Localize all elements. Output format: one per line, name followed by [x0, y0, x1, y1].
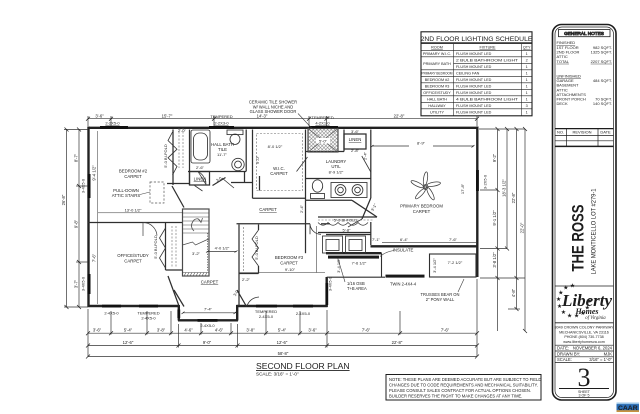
- svg-text:DECK: DECK: [557, 101, 568, 106]
- svg-text:1325 SQFT.: 1325 SQFT.: [591, 50, 612, 55]
- interior small dims: [105, 114, 463, 312]
- svg-text:8'-7": 8'-7": [74, 153, 79, 162]
- top dim line: [88, 118, 477, 120]
- svg-text:CARPET: CARPET: [124, 259, 142, 264]
- svg-text:1: 1: [526, 98, 528, 102]
- svg-text:2-4X5-0: 2-4X5-0: [296, 311, 311, 316]
- svg-text:ROOM: ROOM: [431, 45, 443, 49]
- svg-text:4-2X1-0: 4-2X1-0: [315, 121, 330, 126]
- svg-text:7'-6 1/2": 7'-6 1/2": [352, 261, 367, 266]
- svg-text:4 BULB BATHROOM LIGHT: 4 BULB BATHROOM LIGHT: [456, 98, 519, 102]
- stair dotted edge: [207, 233, 209, 272]
- svg-text:1: 1: [526, 78, 528, 82]
- windows: bottom walls: [102, 283, 328, 322]
- svg-text:CARPET: CARPET: [280, 261, 298, 266]
- svg-text:5'-0": 5'-0": [319, 139, 328, 144]
- insulate leader: [380, 251, 394, 257]
- left dim col: [66, 129, 68, 307]
- svg-text:3'-6": 3'-6": [93, 328, 102, 333]
- wic left wall: [252, 130, 254, 199]
- svg-text:15'-7": 15'-7": [162, 113, 173, 118]
- svg-text:CHANGES DUE TO CODE REQUIREMEN: CHANGES DUE TO CODE REQUIREMENTS AND MEC…: [389, 383, 538, 388]
- svg-text:PRIMARY W.I.C.: PRIMARY W.I.C.: [423, 52, 451, 56]
- svg-text:9'-2": 9'-2": [492, 153, 497, 162]
- svg-text:22'-0": 22'-0": [520, 222, 525, 233]
- project title THE ROSS (rotated): [570, 188, 598, 274]
- title block outer frame: [553, 25, 617, 401]
- svg-text:4'-6": 4'-6": [215, 328, 224, 333]
- svg-text:8'-9": 8'-9": [417, 141, 426, 146]
- svg-text:3-4X5-0: 3-4X5-0: [81, 178, 86, 193]
- svg-text:SCALE:: SCALE:: [557, 357, 572, 362]
- bottom dim rows: [88, 332, 477, 334]
- exterior walls: [88, 127, 479, 321]
- svg-text:BEDROOM #3: BEDROOM #3: [275, 255, 304, 260]
- svg-text:THE ROSS: THE ROSS: [570, 205, 588, 272]
- wall bottom left body: [88, 305, 180, 307]
- svg-text:3'-8": 3'-8": [246, 328, 255, 333]
- svg-text:SCALE: 3/16" = 1'-0": SCALE: 3/16" = 1'-0": [256, 372, 299, 377]
- wic right / utility col left wall: [305, 130, 307, 201]
- laundry right / linen2 wall: [343, 130, 345, 152]
- svg-text:ATTIC STAIRS: ATTIC STAIRS: [112, 193, 141, 198]
- svg-text:www.libertyhomesva.com: www.libertyhomesva.com: [563, 340, 605, 344]
- svg-text:FIXTURE: FIXTURE: [479, 45, 496, 49]
- secondary exterior lines (pony walls / strip): [327, 253, 476, 277]
- svg-text:2'-6": 2'-6": [196, 165, 205, 170]
- svg-text:9'-8": 9'-8": [74, 219, 79, 228]
- bedroom2 closet bottom: [167, 183, 190, 185]
- stair bottom hatch: [184, 273, 207, 277]
- ceiling fan: [410, 172, 441, 201]
- svg-text:9'-1 1/2": 9'-1 1/2": [492, 210, 497, 226]
- bifold zigzags: [160, 132, 369, 268]
- left interior dim line: [98, 131, 183, 304]
- svg-text:8'-9 1/2": 8'-9 1/2": [329, 170, 344, 175]
- bottom window labels: [104, 309, 311, 328]
- svg-text:OFFICE/STUDY: OFFICE/STUDY: [117, 253, 149, 258]
- svg-text:CARPET: CARPET: [270, 171, 288, 176]
- wic shelving dashed: [172, 128, 374, 272]
- svg-text:TWIN 2-4X4-4: TWIN 2-4X4-4: [390, 282, 417, 287]
- svg-text:3'-6": 3'-6": [308, 328, 317, 333]
- svg-text:3/16" = 1'-0": 3/16" = 1'-0": [589, 357, 612, 362]
- windows: left wall: [88, 174, 91, 294]
- svg-text:9'-4 1/2": 9'-4 1/2": [91, 165, 96, 181]
- svg-text:INSULATE: INSULATE: [393, 248, 414, 253]
- svg-text:5'-4": 5'-4": [124, 328, 133, 333]
- svg-text:REVISION: REVISION: [572, 130, 591, 135]
- svg-text:26'-8": 26'-8": [61, 194, 66, 205]
- svg-text:1: 1: [526, 52, 528, 56]
- svg-text:FLUSH MOUNT LED: FLUSH MOUNT LED: [456, 65, 492, 69]
- pull-down attic stairs (dashed): [140, 182, 164, 203]
- svg-text:2'-0": 2'-0": [178, 128, 187, 133]
- date / drawn by / scale rows: [555, 345, 614, 362]
- svg-text:DATE:: DATE:: [557, 346, 569, 351]
- svg-text:4'-8": 4'-8": [511, 288, 516, 297]
- hall bath right wall: [245, 130, 247, 172]
- svg-text:9'-10": 9'-10": [285, 267, 296, 272]
- primary bedroom left wall upper: [370, 130, 372, 199]
- svg-text:11'-7": 11'-7": [217, 152, 227, 157]
- right dim col: [497, 129, 499, 331]
- washer dryer: [323, 236, 366, 253]
- sheet number: [559, 363, 609, 398]
- svg-text:17'-8": 17'-8": [460, 183, 465, 194]
- hallway angled wall right: [237, 290, 247, 307]
- svg-text:3'-6": 3'-6": [351, 129, 360, 134]
- left dim labels (rotated): [61, 153, 96, 288]
- svg-text:1: 1: [526, 65, 528, 69]
- svg-text:TOTAL: TOTAL: [557, 59, 570, 64]
- svg-text:FLUSH MOUNT LED: FLUSH MOUNT LED: [456, 52, 492, 56]
- office closet left wall: [165, 223, 167, 271]
- hall lower dim 4'-0 1/2": [206, 251, 238, 253]
- svg-text:2 BULB BATHROOM LIGHT: 2 BULB BATHROOM LIGHT: [456, 59, 519, 63]
- svg-text:58'-8": 58'-8": [278, 351, 289, 356]
- svg-text:MECHANICSVILLE, VA 23116: MECHANICSVILLE, VA 23116: [559, 330, 609, 334]
- svg-text:13'-0 1/2": 13'-0 1/2": [125, 207, 142, 212]
- primary bath top wall: [306, 178, 371, 180]
- note box: [386, 375, 541, 401]
- bedroom3 closet left wall: [238, 225, 240, 307]
- primary bath double vanity: [331, 183, 367, 198]
- TWIN 2-4X4-4 beam bar: [386, 275, 425, 278]
- svg-text:★: ★: [567, 312, 573, 319]
- svg-text:NOVEMBER 6, 2024: NOVEMBER 6, 2024: [573, 346, 613, 351]
- svg-text:CARPET: CARPET: [259, 207, 277, 212]
- liberty homes logo: [555, 283, 614, 323]
- hall entry diagonal A: [172, 186, 184, 208]
- top dim labels: [95, 113, 405, 118]
- svg-text:12'-6": 12'-6": [123, 340, 134, 345]
- right dim labels (rotated): [492, 153, 525, 297]
- linen closet box: [190, 172, 210, 186]
- OSB beam bar: [328, 256, 379, 259]
- dim ticks top: [65, 117, 528, 359]
- svg-text:484 SQFT.: 484 SQFT.: [593, 78, 612, 83]
- notch left vertical: [381, 253, 383, 277]
- svg-text:T+B AREA: T+B AREA: [347, 286, 367, 291]
- bedroom2 closet wall: [172, 130, 174, 186]
- osb note: [347, 281, 417, 291]
- svg-text:22'-8": 22'-8": [394, 113, 405, 118]
- revision table: [555, 129, 614, 147]
- svg-text:3 OF 5: 3 OF 5: [579, 394, 590, 398]
- svg-text:5'-4": 5'-4": [278, 328, 287, 333]
- svg-text:140 SQFT.: 140 SQFT.: [593, 101, 612, 106]
- svg-text:★: ★: [570, 283, 576, 290]
- svg-text:3'-8 1/2": 3'-8 1/2": [492, 252, 497, 268]
- svg-text:★: ★: [563, 285, 569, 292]
- svg-text:12'-6": 12'-6": [277, 340, 288, 345]
- svg-text:3-0: 3-0: [215, 175, 223, 183]
- svg-text:BUILDER RESERVES THE RIGHT TO: BUILDER RESERVES THE RIGHT TO MAKE CHANG…: [389, 394, 522, 399]
- address block: [555, 326, 614, 344]
- svg-text:PRIMARY BATH: PRIMARY BATH: [423, 62, 451, 66]
- svg-text:NO.: NO.: [557, 130, 564, 135]
- hall bath toilet: [227, 130, 243, 145]
- svg-text:3'-6": 3'-6": [95, 113, 104, 118]
- svg-text:14'-3": 14'-3": [257, 113, 268, 118]
- svg-text:MJK: MJK: [604, 351, 613, 356]
- svg-text:UTILITY: UTILITY: [430, 111, 444, 115]
- svg-text:DRAWN BY:: DRAWN BY:: [557, 351, 580, 356]
- svg-text:BEDROOM #2: BEDROOM #2: [119, 169, 148, 174]
- svg-text:PRIMARY BEDROOM: PRIMARY BEDROOM: [400, 204, 443, 209]
- stairwell: [183, 209, 210, 276]
- svg-text:2'-2": 2'-2": [242, 277, 251, 282]
- svg-text:1: 1: [526, 91, 528, 95]
- svg-text:2-4X5-0: 2-4X5-0: [104, 311, 119, 316]
- bedroom2 / office divider: [88, 222, 183, 224]
- svg-text:CARPET: CARPET: [201, 280, 219, 285]
- svg-text:LINEN: LINEN: [194, 177, 207, 182]
- svg-text:3'-4 1/2": 3'-4 1/2": [432, 258, 437, 273]
- wall left: [87, 127, 89, 308]
- svg-text:2" PONY WALL: 2" PONY WALL: [426, 297, 455, 302]
- svg-text:18'-3 1/2": 18'-3 1/2": [502, 179, 507, 197]
- shower label patch: [316, 138, 330, 144]
- svg-text:BEDROOM #2: BEDROOM #2: [425, 78, 450, 82]
- svg-text:★: ★: [561, 309, 567, 316]
- svg-text:HALL BATH: HALL BATH: [427, 98, 447, 102]
- utility bottom wall: [326, 252, 382, 254]
- svg-text:3: 3: [526, 104, 528, 108]
- svg-text:★: ★: [585, 305, 591, 312]
- svg-text:QTY: QTY: [523, 45, 531, 49]
- svg-text:PHONE (804) 730-7738: PHONE (804) 730-7738: [564, 335, 603, 339]
- svg-text:HALLWAY: HALLWAY: [428, 104, 446, 108]
- svg-text:9'-0": 9'-0": [203, 340, 212, 345]
- bump-out left wall: [178, 305, 180, 321]
- svg-text:CAAR: CAAR: [618, 405, 638, 412]
- svg-text:OFFICE/STUDY: OFFICE/STUDY: [423, 91, 451, 95]
- utility col left lower: [305, 200, 307, 253]
- svg-text:LAKE MONTICELLO LOT #279-1: LAKE MONTICELLO LOT #279-1: [591, 188, 598, 274]
- svg-text:2'-4": 2'-4": [363, 151, 368, 160]
- bedroom3 closet bottom: [239, 273, 259, 275]
- linen2 box top right: [344, 134, 366, 149]
- svg-text:CARPET: CARPET: [413, 209, 431, 214]
- door swings: [195, 156, 371, 306]
- svg-text:9'-0": 9'-0": [255, 155, 260, 164]
- svg-text:5'-0 BI-FOLD: 5'-0 BI-FOLD: [163, 144, 168, 168]
- svg-text:3'-2": 3'-2": [192, 251, 201, 256]
- svg-text:5'-0 BI-FOLD: 5'-0 BI-FOLD: [254, 236, 259, 260]
- svg-text:5'-8": 5'-8": [343, 228, 352, 233]
- wall top: [88, 127, 479, 129]
- svg-text:1: 1: [526, 72, 528, 76]
- svg-text:5'-0 BI-FOLD: 5'-0 BI-FOLD: [153, 235, 158, 259]
- svg-text:8'-0 1/2": 8'-0 1/2": [268, 144, 283, 149]
- wic bottom wall: [253, 197, 306, 199]
- svg-text:3'-8": 3'-8": [157, 328, 166, 333]
- angled door wall B: [213, 178, 226, 186]
- bedroom3 closet right face top stub: [258, 225, 260, 231]
- svg-text:2: 2: [526, 59, 528, 63]
- svg-text:3-4X5-0: 3-4X5-0: [328, 276, 333, 291]
- svg-text:22'-8": 22'-8": [511, 192, 516, 203]
- svg-text:2'-8": 2'-8": [351, 148, 360, 153]
- svg-text:FLUSH MOUNT LED: FLUSH MOUNT LED: [456, 111, 492, 115]
- lighting schedule table: [421, 32, 533, 116]
- ceramic tile shower note: [249, 100, 297, 114]
- svg-text:7'-6": 7'-6": [441, 328, 450, 333]
- svg-text:8049 CROWN COLONY PARKWAY: 8049 CROWN COLONY PARKWAY: [555, 326, 614, 330]
- svg-text:PRIMARY BEDROOM: PRIMARY BEDROOM: [422, 72, 453, 76]
- svg-text:7'-4": 7'-4": [204, 307, 213, 312]
- svg-text:2-2X5-0: 2-2X5-0: [105, 121, 120, 126]
- svg-text:6'-4": 6'-4": [400, 237, 409, 242]
- general notes header box: [559, 30, 611, 37]
- primary bath toilet: [311, 180, 325, 199]
- svg-text:3'-7": 3'-7": [74, 279, 79, 288]
- windows: top wall: [100, 126, 338, 129]
- notch dims: [382, 242, 477, 244]
- svg-text:4'-0 1/2": 4'-0 1/2": [215, 246, 230, 251]
- title/logo divider: [555, 285, 614, 287]
- svg-text:7'-6": 7'-6": [449, 237, 458, 242]
- bottom dim labels: [93, 328, 450, 356]
- bedroom3 interior dims: [239, 226, 325, 273]
- svg-text:2-2X3-0: 2-2X3-0: [214, 121, 229, 126]
- primary bedroom bottom wall: [371, 245, 478, 247]
- svg-text:1: 1: [526, 85, 528, 89]
- svg-text:CEILING FAN: CEILING FAN: [456, 72, 480, 76]
- svg-text:★: ★: [586, 298, 592, 305]
- svg-text:FLUSH MOUNT LED: FLUSH MOUNT LED: [456, 91, 492, 95]
- svg-text:3-4X5-0: 3-4X5-0: [81, 276, 86, 291]
- svg-text:FLUSH MOUNT LED: FLUSH MOUNT LED: [456, 104, 492, 108]
- svg-text:1: 1: [526, 111, 528, 115]
- hall bath sink: [232, 158, 244, 170]
- svg-text:GENERAL NOTES: GENERAL NOTES: [564, 31, 604, 36]
- primary bedroom left wall lower: [370, 222, 372, 245]
- svg-text:★: ★: [574, 313, 580, 320]
- svg-text:7'-2 1/2": 7'-2 1/2": [448, 260, 463, 265]
- dimension lines: [64, 116, 525, 357]
- CAAR logo: [617, 403, 640, 413]
- svg-text:LINEN: LINEN: [349, 137, 362, 142]
- wall bottom bedroom3: [237, 305, 328, 307]
- svg-text:3: 3: [578, 363, 591, 392]
- bump-out bottom wall: [178, 319, 238, 321]
- svg-text:BEDROOM #3: BEDROOM #3: [425, 85, 450, 89]
- svg-text:FLUSH MOUNT LED: FLUSH MOUNT LED: [456, 78, 492, 82]
- svg-text:2-4X5-0: 2-4X5-0: [259, 314, 274, 319]
- svg-text:3'-1": 3'-1": [370, 202, 378, 212]
- office door swing: [143, 222, 157, 236]
- general notes list: [557, 40, 613, 106]
- wall right: [476, 127, 478, 278]
- sink alcove bottom wall: [231, 182, 253, 184]
- primary bath bottom wall: [306, 199, 353, 201]
- svg-text:2207 SQFT.: 2207 SQFT.: [591, 59, 612, 64]
- primary bedroom door angle: [362, 198, 371, 219]
- svg-text:FLUSH MOUNT LED: FLUSH MOUNT LED: [456, 85, 492, 89]
- room labels: [112, 137, 444, 285]
- windows: right wall: [476, 170, 479, 191]
- svg-text:4'-6": 4'-6": [184, 328, 193, 333]
- svg-text:NOTE: THESE PLANS ARE DEEMED A: NOTE: THESE PLANS ARE DEEMED ACCURATE BU…: [389, 377, 541, 382]
- rotated interior labels: [81, 144, 488, 297]
- shower ceramic tile hatch: [308, 129, 338, 153]
- interior walls: [88, 130, 377, 307]
- office closet bottom: [166, 269, 183, 271]
- svg-text:7'-6": 7'-6": [91, 253, 96, 262]
- hall bath tub: [191, 130, 210, 163]
- bump-out right wall: [236, 305, 238, 321]
- svg-text:2ND FLOOR LIGHTING SCHEDULE: 2ND FLOOR LIGHTING SCHEDULE: [421, 36, 533, 43]
- svg-text:3-2X5-0: 3-2X5-0: [483, 174, 488, 189]
- svg-text:22'-8": 22'-8": [392, 340, 403, 345]
- bump interior dim: [182, 312, 237, 314]
- bump left wall window: [177, 310, 180, 319]
- svg-text:PLEASE CONSULT SALES CONTRACT: PLEASE CONSULT SALES CONTRACT FOR ACTUAL…: [389, 388, 531, 393]
- shower bottom wall: [306, 151, 345, 153]
- angled hall wall right of bath: [352, 200, 377, 217]
- svg-text:2-4X5-0: 2-4X5-0: [200, 323, 215, 328]
- bedroom3 top wall: [237, 223, 311, 225]
- drawing title: SECOND FLOOR PLAN: [256, 361, 350, 377]
- svg-text:CARPET: CARPET: [124, 174, 142, 179]
- svg-text:2-4X5-0: 2-4X5-0: [141, 316, 156, 321]
- wd area top: [326, 234, 371, 236]
- strip box right: [430, 254, 477, 277]
- bedroom interior dim 8'-9": [371, 145, 475, 148]
- hallway angled wall left: [174, 290, 184, 307]
- svg-text:UTIL: UTIL: [331, 164, 341, 169]
- svg-text:7'-1": 7'-1": [372, 237, 381, 242]
- svg-text:2'-4": 2'-4": [299, 204, 304, 213]
- svg-text:5'-0 BI-FOLD: 5'-0 BI-FOLD: [334, 218, 358, 223]
- svg-text:of Virginia: of Virginia: [585, 316, 606, 321]
- top dim extensions: [87, 116, 89, 126]
- bedroom3 right wall lower: [326, 277, 328, 307]
- office lower stub: [168, 276, 179, 306]
- primary closet bottom (bifold line): [318, 232, 371, 234]
- notch bottom connect: [327, 276, 385, 278]
- hall bath / linen bottom: [188, 171, 246, 173]
- svg-text:TEMPERED: TEMPERED: [311, 115, 333, 120]
- trusses note: [421, 292, 460, 302]
- svg-text:DATE: DATE: [600, 130, 611, 135]
- primary closet top: [318, 216, 377, 218]
- svg-text:7'-6": 7'-6": [362, 328, 371, 333]
- hall bath left (tub wall): [189, 130, 191, 186]
- svg-text:SECOND FLOOR PLAN: SECOND FLOOR PLAN: [256, 361, 350, 371]
